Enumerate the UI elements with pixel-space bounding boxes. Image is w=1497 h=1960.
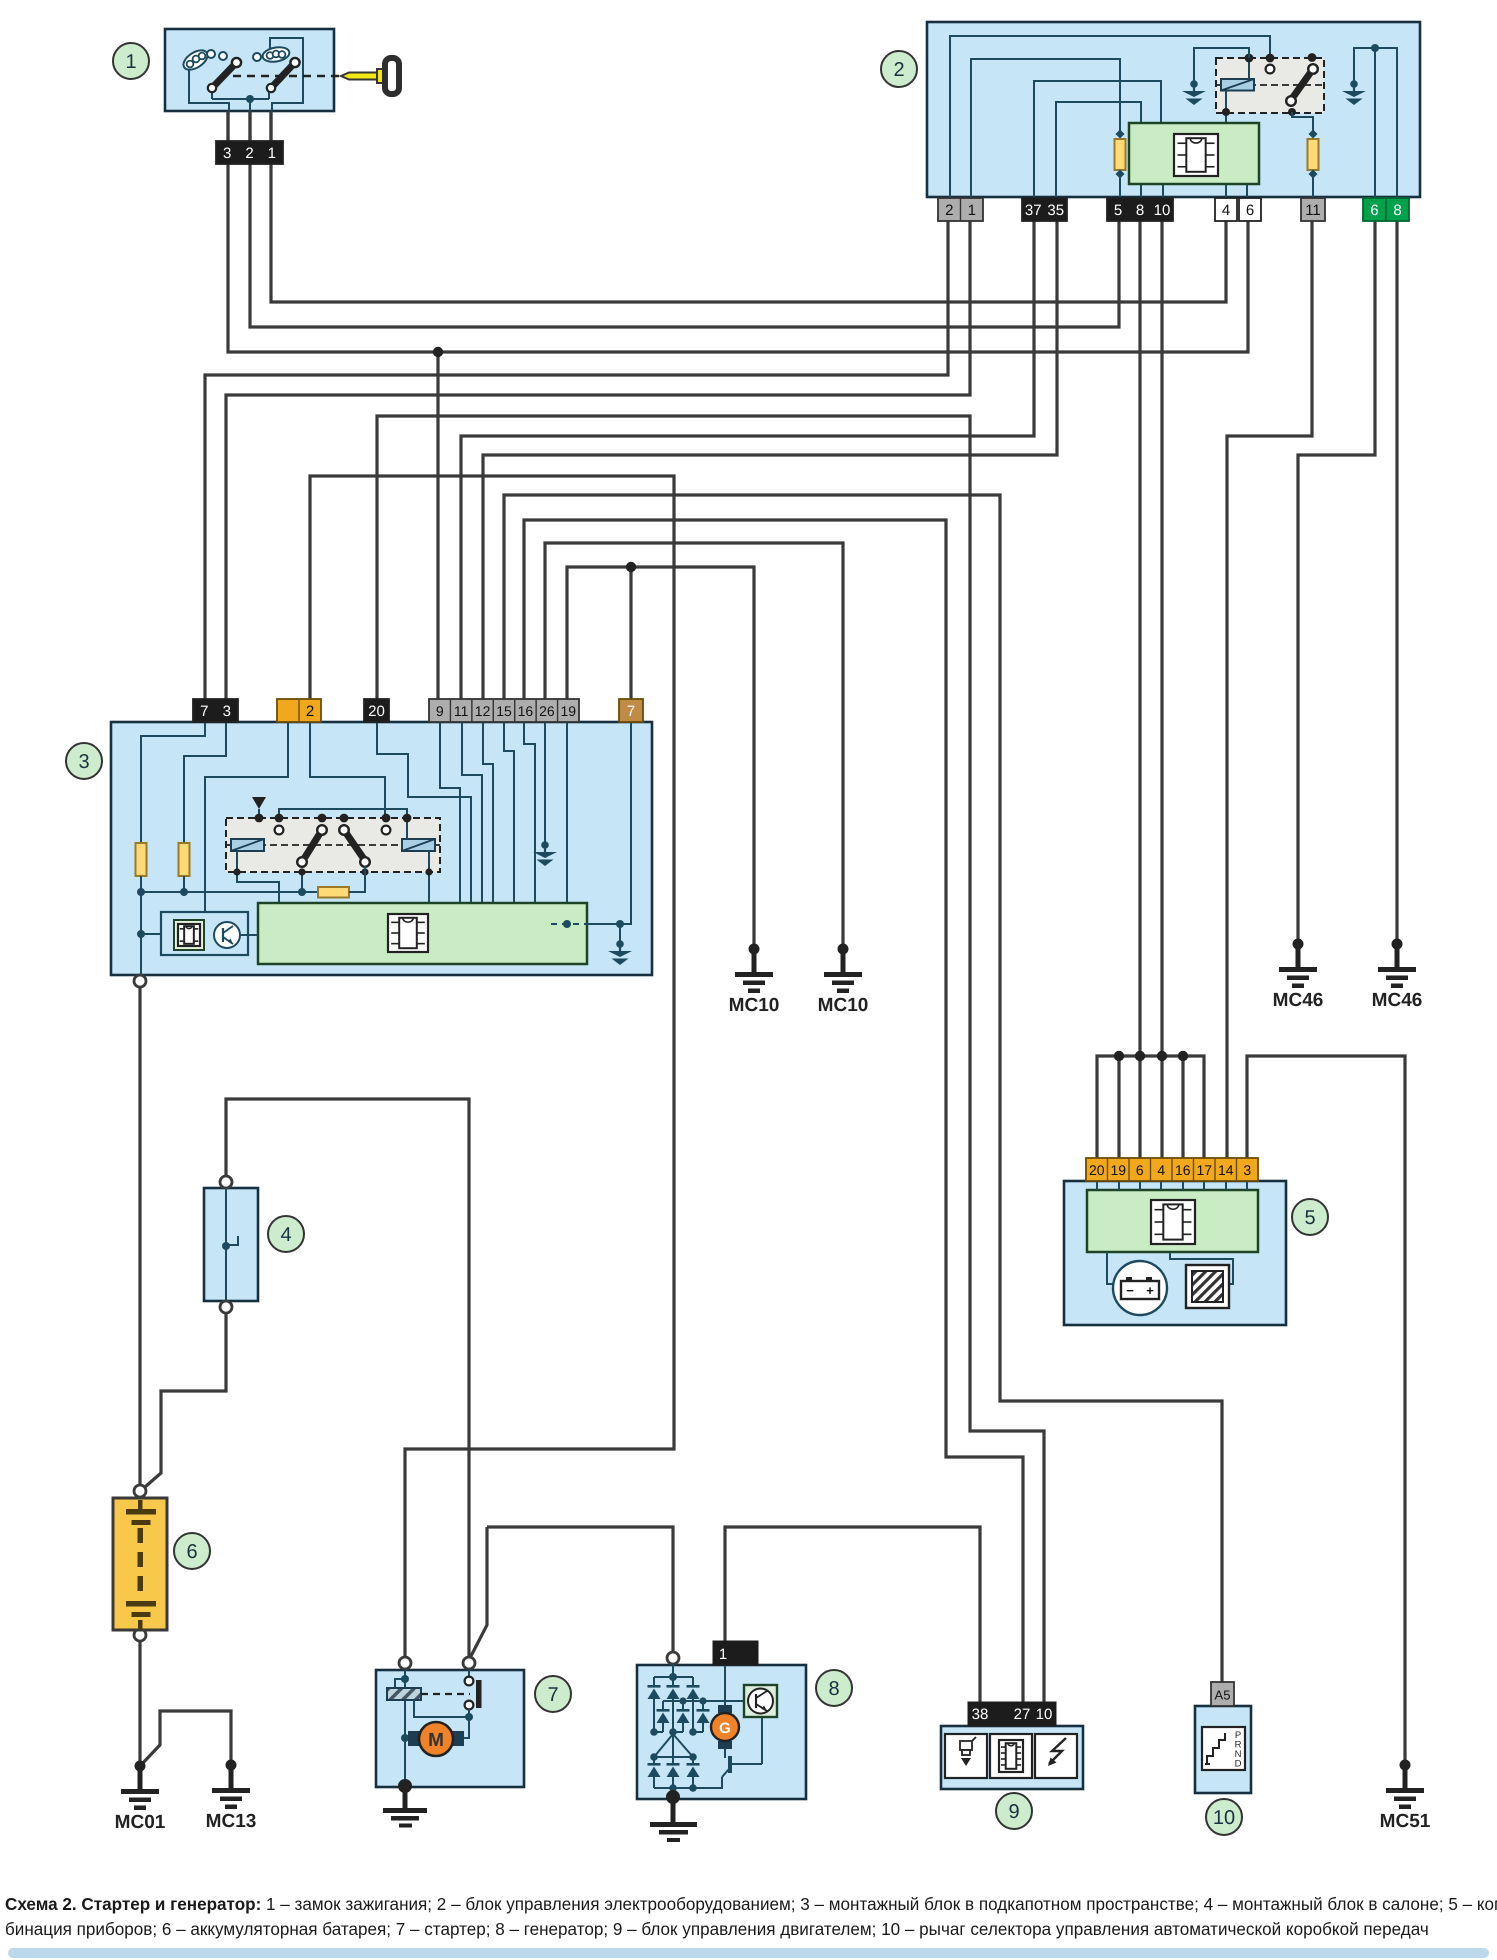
- svg-text:15: 15: [496, 703, 512, 719]
- svg-text:2: 2: [893, 59, 904, 81]
- svg-text:2: 2: [306, 703, 314, 720]
- svg-text:−: −: [1126, 1283, 1134, 1298]
- svg-text:2: 2: [945, 202, 953, 219]
- svg-text:11: 11: [1305, 202, 1321, 219]
- svg-text:1: 1: [125, 51, 136, 73]
- svg-text:МС10: МС10: [729, 995, 780, 1016]
- svg-text:10: 10: [1154, 202, 1171, 219]
- svg-text:7: 7: [200, 703, 208, 720]
- svg-text:3: 3: [223, 703, 231, 720]
- svg-text:16: 16: [1175, 1162, 1191, 1178]
- svg-text:1: 1: [268, 145, 276, 162]
- svg-text:4: 4: [1157, 1162, 1165, 1178]
- svg-text:МС01: МС01: [115, 1812, 166, 1833]
- svg-text:5: 5: [1304, 1207, 1315, 1229]
- svg-text:35: 35: [1047, 202, 1064, 219]
- svg-text:6: 6: [186, 1541, 197, 1563]
- svg-text:10: 10: [1036, 1706, 1053, 1723]
- svg-text:8: 8: [1393, 202, 1401, 219]
- svg-text:G: G: [719, 1720, 731, 1737]
- svg-text:МС51: МС51: [1380, 1811, 1431, 1832]
- svg-text:38: 38: [972, 1706, 989, 1723]
- svg-text:5: 5: [1114, 202, 1122, 219]
- svg-text:МС46: МС46: [1273, 990, 1324, 1011]
- svg-text:4: 4: [280, 1224, 291, 1246]
- svg-text:16: 16: [518, 703, 534, 719]
- svg-text:9: 9: [1008, 1801, 1019, 1823]
- svg-text:17: 17: [1196, 1162, 1212, 1178]
- svg-text:19: 19: [560, 703, 576, 719]
- svg-text:19: 19: [1110, 1162, 1126, 1178]
- svg-text:3: 3: [223, 145, 231, 162]
- svg-text:3: 3: [1243, 1162, 1251, 1178]
- svg-text:1: 1: [719, 1646, 727, 1663]
- svg-text:D: D: [1235, 1759, 1242, 1770]
- svg-text:14: 14: [1218, 1162, 1234, 1178]
- svg-text:11: 11: [454, 703, 469, 719]
- svg-text:МС46: МС46: [1372, 990, 1423, 1011]
- svg-text:1: 1: [968, 202, 976, 219]
- svg-text:7: 7: [627, 703, 635, 720]
- svg-text:20: 20: [1089, 1162, 1105, 1178]
- svg-text:27: 27: [1014, 1706, 1031, 1723]
- svg-text:6: 6: [1136, 1162, 1144, 1178]
- svg-text:9: 9: [436, 703, 444, 719]
- svg-text:МС10: МС10: [818, 995, 869, 1016]
- svg-text:3: 3: [78, 751, 89, 773]
- svg-text:4: 4: [1222, 202, 1230, 219]
- svg-text:12: 12: [475, 703, 491, 719]
- svg-text:26: 26: [539, 703, 555, 719]
- svg-text:37: 37: [1025, 202, 1042, 219]
- svg-text:A5: A5: [1215, 1688, 1231, 1703]
- svg-text:6: 6: [1370, 202, 1378, 219]
- svg-text:2: 2: [245, 145, 253, 162]
- svg-text:10: 10: [1213, 1807, 1235, 1829]
- svg-text:8: 8: [1136, 202, 1144, 219]
- svg-text:6: 6: [1246, 202, 1254, 219]
- svg-text:7: 7: [547, 1684, 558, 1706]
- svg-text:20: 20: [368, 703, 385, 720]
- svg-text:МС13: МС13: [206, 1811, 257, 1832]
- svg-text:M: M: [428, 1730, 444, 1751]
- svg-text:8: 8: [828, 1678, 839, 1700]
- svg-text:+: +: [1146, 1283, 1154, 1298]
